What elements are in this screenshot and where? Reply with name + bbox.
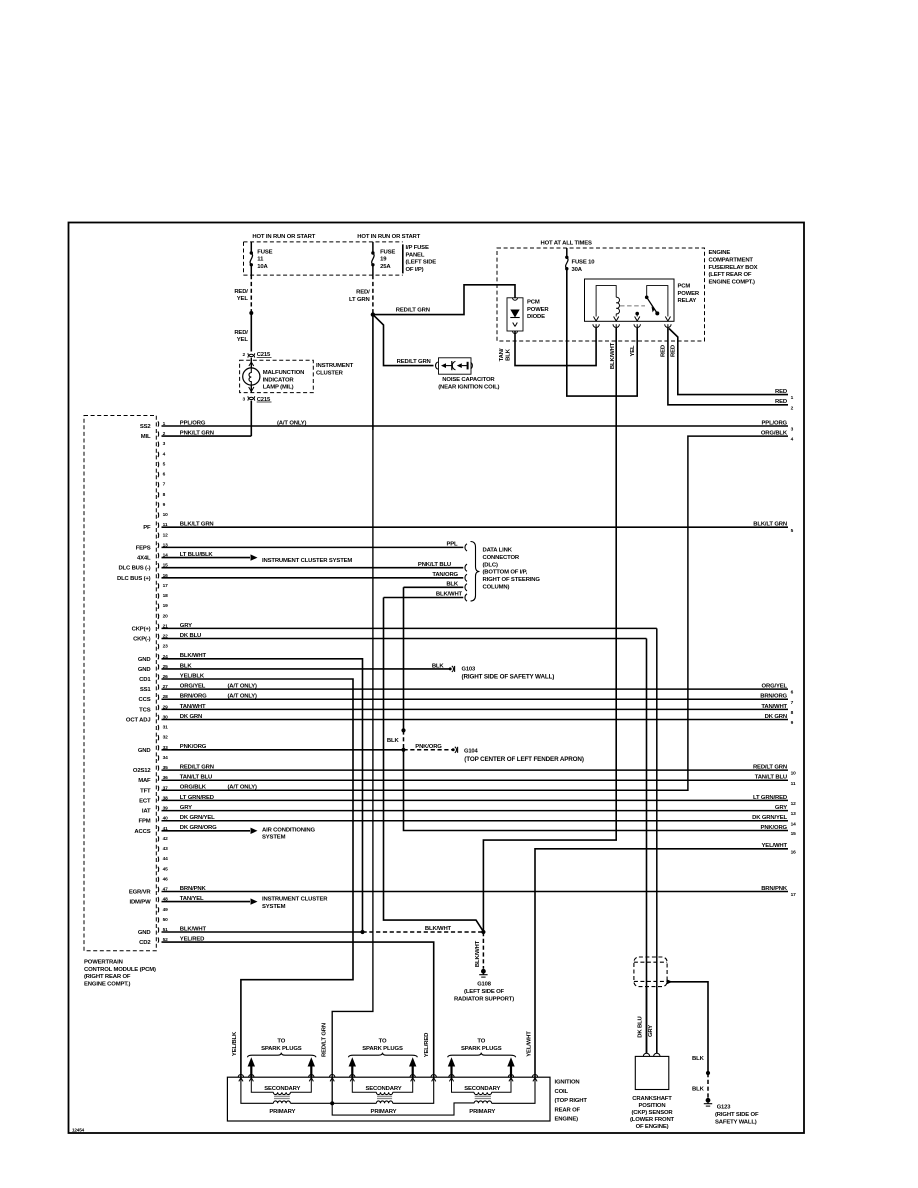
svg-text:31: 31 [163, 725, 169, 731]
svg-text:BLK/WHT: BLK/WHT [610, 342, 616, 369]
svg-text:DATA LINK: DATA LINK [483, 548, 513, 554]
svg-text:SYSTEM: SYSTEM [262, 904, 286, 910]
svg-text:OF ENGINE): OF ENGINE) [636, 1124, 669, 1130]
svg-text:YEL: YEL [237, 337, 249, 343]
svg-text:12: 12 [791, 801, 797, 807]
svg-text:(CKP) SENSOR: (CKP) SENSOR [631, 1110, 673, 1116]
svg-text:FUSE: FUSE [380, 249, 395, 255]
svg-text:TO: TO [277, 1039, 285, 1045]
svg-text:SS2: SS2 [140, 424, 152, 430]
svg-text:GRY: GRY [648, 1025, 654, 1037]
svg-text:INSTRUMENT CLUSTER SYSTEM: INSTRUMENT CLUSTER SYSTEM [262, 558, 352, 564]
svg-text:11: 11 [791, 781, 796, 787]
svg-text:DIODE: DIODE [527, 314, 545, 320]
svg-text:CD2: CD2 [139, 940, 151, 946]
svg-text:OF I/P): OF I/P) [406, 267, 424, 273]
svg-text:PNK/ORG: PNK/ORG [415, 744, 442, 750]
svg-text:DK BLU: DK BLU [638, 1016, 644, 1037]
svg-text:PF: PF [143, 525, 151, 531]
svg-text:RELAY: RELAY [678, 298, 697, 304]
svg-text:SS1: SS1 [140, 687, 152, 693]
svg-text:TAN/: TAN/ [499, 348, 505, 361]
svg-text:YEL: YEL [237, 296, 249, 302]
svg-text:42: 42 [163, 836, 169, 842]
svg-text:12454: 12454 [72, 1128, 85, 1133]
svg-text:ENGINE): ENGINE) [555, 1117, 579, 1123]
svg-text:LAMP (MIL): LAMP (MIL) [263, 385, 294, 391]
svg-text:HOT IN RUN OR START: HOT IN RUN OR START [252, 234, 315, 240]
svg-text:YEL: YEL [630, 345, 636, 357]
svg-text:RADIATOR SUPPORT): RADIATOR SUPPORT) [454, 997, 514, 1003]
svg-text:19: 19 [380, 257, 387, 263]
svg-text:13: 13 [791, 811, 797, 817]
svg-text:FUSE 10: FUSE 10 [572, 259, 596, 265]
svg-text:G104: G104 [464, 748, 479, 754]
svg-text:GND: GND [138, 748, 151, 754]
svg-text:SPARK PLUGS: SPARK PLUGS [461, 1046, 502, 1052]
svg-text:25A: 25A [380, 264, 391, 270]
svg-text:CONNECTOR: CONNECTOR [483, 555, 520, 561]
svg-text:RED/LT GRN: RED/LT GRN [321, 1023, 327, 1057]
svg-text:11: 11 [257, 257, 264, 263]
svg-text:10: 10 [163, 512, 169, 518]
svg-text:PCM: PCM [678, 284, 691, 290]
svg-text:INSTRUMENT: INSTRUMENT [316, 363, 354, 369]
svg-text:BLK: BLK [446, 582, 459, 588]
svg-text:SPARK PLUGS: SPARK PLUGS [362, 1046, 403, 1052]
svg-text:(LOWER FRONT: (LOWER FRONT [630, 1117, 675, 1123]
svg-text:GND: GND [138, 657, 151, 663]
svg-text:TFT: TFT [140, 788, 151, 794]
svg-text:MALFUNCTION: MALFUNCTION [263, 370, 305, 376]
svg-text:RED: RED [661, 345, 667, 357]
svg-text:PRIMARY: PRIMARY [469, 1109, 495, 1115]
svg-text:SECONDARY: SECONDARY [365, 1086, 401, 1092]
svg-text:YEL/RED: YEL/RED [424, 1033, 430, 1057]
svg-text:BLK: BLK [432, 663, 445, 669]
svg-text:OCT ADJ: OCT ADJ [126, 718, 151, 724]
svg-text:BLK: BLK [505, 348, 511, 361]
svg-text:RIGHT OF STEERING: RIGHT OF STEERING [483, 577, 541, 583]
svg-text:SAFETY WALL): SAFETY WALL) [715, 1119, 757, 1125]
svg-text:I/P FUSE: I/P FUSE [406, 245, 429, 251]
svg-text:(LEFT SIDE: (LEFT SIDE [406, 260, 437, 266]
svg-text:RED: RED [775, 399, 787, 405]
svg-text:LT GRN: LT GRN [349, 297, 370, 303]
svg-text:MAF: MAF [138, 778, 151, 784]
svg-text:COLUMN): COLUMN) [483, 585, 510, 591]
svg-text:INDICATOR: INDICATOR [263, 377, 295, 383]
svg-text:19: 19 [163, 603, 169, 609]
svg-text:BLK/WHT: BLK/WHT [425, 926, 452, 932]
svg-text:(DLC): (DLC) [483, 562, 498, 568]
svg-text:44: 44 [163, 856, 169, 862]
svg-text:46: 46 [163, 876, 169, 882]
svg-text:4X4L: 4X4L [137, 556, 151, 562]
svg-text:18: 18 [163, 593, 169, 599]
svg-text:GND: GND [138, 667, 151, 673]
svg-text:AIR CONDITIONING: AIR CONDITIONING [262, 827, 315, 833]
svg-text:16: 16 [791, 849, 797, 855]
svg-text:BLK: BLK [692, 1056, 705, 1062]
svg-text:FEPS: FEPS [136, 545, 151, 551]
svg-text:ACCS: ACCS [134, 829, 150, 835]
svg-text:CCS: CCS [139, 697, 151, 703]
svg-text:G123: G123 [717, 1105, 732, 1111]
svg-text:CD1: CD1 [139, 677, 151, 683]
svg-text:(RIGHT REAR OF: (RIGHT REAR OF [84, 974, 131, 980]
svg-text:POWER: POWER [527, 307, 549, 313]
svg-text:34: 34 [163, 755, 169, 761]
svg-text:FUSE: FUSE [257, 249, 272, 255]
svg-text:ENGINE COMPT.): ENGINE COMPT.) [84, 981, 131, 987]
svg-text:SPARK PLUGS: SPARK PLUGS [261, 1046, 302, 1052]
svg-text:(TOP RIGHT: (TOP RIGHT [555, 1098, 588, 1104]
svg-text:POWERTRAIN: POWERTRAIN [84, 960, 123, 966]
svg-text:FPM: FPM [139, 819, 151, 825]
svg-text:TAN/ORG: TAN/ORG [432, 572, 458, 578]
svg-text:CRANKSHAFT: CRANKSHAFT [632, 1096, 672, 1102]
svg-text:50: 50 [163, 917, 169, 923]
svg-text:DLC BUS (-): DLC BUS (-) [118, 566, 150, 572]
svg-text:IGNITION: IGNITION [555, 1080, 580, 1086]
svg-text:PPL: PPL [446, 542, 458, 548]
svg-text:RED: RED [775, 389, 787, 395]
svg-text:O2S12: O2S12 [133, 768, 151, 774]
svg-text:PCM: PCM [527, 300, 540, 306]
svg-text:RED: RED [671, 345, 677, 357]
svg-text:RED/: RED/ [234, 289, 248, 295]
svg-text:PRIMARY: PRIMARY [269, 1109, 295, 1115]
svg-text:10A: 10A [257, 264, 268, 270]
svg-text:BLK/WHT: BLK/WHT [436, 592, 463, 598]
svg-text:17: 17 [163, 583, 169, 589]
svg-text:G108: G108 [477, 982, 492, 988]
svg-text:17: 17 [791, 892, 797, 898]
svg-text:CLUSTER: CLUSTER [316, 371, 344, 377]
svg-text:DLC BUS (+): DLC BUS (+) [117, 576, 151, 582]
svg-text:HOT AT ALL TIMES: HOT AT ALL TIMES [541, 241, 592, 247]
svg-text:23: 23 [163, 644, 169, 650]
svg-text:CKP(-): CKP(-) [133, 637, 151, 643]
svg-text:POSITION: POSITION [639, 1103, 666, 1109]
svg-text:(LEFT SIDE OF: (LEFT SIDE OF [464, 989, 504, 995]
svg-text:GND: GND [138, 930, 151, 936]
svg-text:(LEFT REAR OF: (LEFT REAR OF [709, 272, 752, 278]
svg-text:CONTROL MODULE (PCM): CONTROL MODULE (PCM) [84, 967, 156, 973]
svg-text:43: 43 [163, 846, 169, 852]
svg-text:RED/LT GRN: RED/LT GRN [397, 359, 431, 365]
svg-text:ENGINE COMPT.): ENGINE COMPT.) [709, 279, 756, 285]
svg-text:NOISE CAPACITOR: NOISE CAPACITOR [442, 377, 495, 383]
svg-text:CKP(+): CKP(+) [132, 626, 151, 632]
svg-text:RED/: RED/ [234, 330, 248, 336]
svg-text:INSTRUMENT CLUSTER: INSTRUMENT CLUSTER [262, 896, 328, 902]
svg-text:TO: TO [379, 1039, 387, 1045]
svg-text:PNK/LT BLU: PNK/LT BLU [418, 562, 451, 568]
svg-text:YEL/WHT: YEL/WHT [526, 1031, 532, 1057]
svg-text:PANEL: PANEL [406, 252, 425, 258]
svg-text:COMPARTMENT: COMPARTMENT [709, 258, 754, 264]
svg-text:FUSE/RELAY BOX: FUSE/RELAY BOX [709, 265, 758, 271]
svg-text:(NEAR IGNITION COIL): (NEAR IGNITION COIL) [438, 384, 499, 390]
svg-text:(RIGHT SIDE OF SAFETY WALL): (RIGHT SIDE OF SAFETY WALL) [462, 673, 555, 680]
svg-text:(BOTTOM OF I/P,: (BOTTOM OF I/P, [483, 570, 528, 576]
svg-text:TO: TO [477, 1039, 485, 1045]
svg-text:12: 12 [163, 532, 169, 538]
svg-text:14: 14 [791, 821, 797, 827]
svg-text:HOT IN RUN OR START: HOT IN RUN OR START [357, 234, 420, 240]
svg-text:BLK/WHT: BLK/WHT [475, 940, 481, 967]
svg-text:TCS: TCS [139, 707, 151, 713]
svg-text:10: 10 [791, 771, 797, 777]
svg-text:BLK: BLK [692, 1086, 705, 1092]
svg-text:49: 49 [163, 907, 169, 913]
svg-text:YEL/BLK: YEL/BLK [232, 1031, 238, 1056]
svg-text:PRIMARY: PRIMARY [371, 1109, 397, 1115]
svg-text:ENGINE: ENGINE [709, 250, 731, 256]
svg-text:BLK: BLK [387, 738, 400, 744]
svg-text:32: 32 [163, 735, 169, 741]
svg-text:30A: 30A [572, 267, 583, 273]
svg-text:15: 15 [791, 831, 797, 837]
svg-text:G103: G103 [462, 667, 477, 673]
svg-text:MIL: MIL [141, 434, 151, 440]
svg-text:IDM/PW: IDM/PW [129, 900, 151, 906]
svg-text:SECONDARY: SECONDARY [264, 1086, 300, 1092]
svg-text:POWER: POWER [678, 291, 700, 297]
svg-text:SYSTEM: SYSTEM [262, 835, 286, 841]
svg-text:(TOP CENTER OF LEFT FENDER APR: (TOP CENTER OF LEFT FENDER APRON) [464, 756, 584, 763]
svg-text:45: 45 [163, 866, 169, 872]
svg-text:ECT: ECT [139, 798, 151, 804]
svg-text:RED/: RED/ [356, 290, 370, 296]
svg-text:20: 20 [163, 613, 169, 619]
svg-text:EGR/VR: EGR/VR [129, 890, 152, 896]
svg-text:COIL: COIL [555, 1089, 569, 1095]
svg-text:REAR OF: REAR OF [555, 1107, 581, 1113]
svg-text:IAT: IAT [142, 809, 151, 815]
svg-text:RED/LT GRN: RED/LT GRN [396, 308, 430, 314]
svg-text:(RIGHT SIDE OF: (RIGHT SIDE OF [715, 1112, 759, 1118]
svg-text:SECONDARY: SECONDARY [464, 1086, 500, 1092]
